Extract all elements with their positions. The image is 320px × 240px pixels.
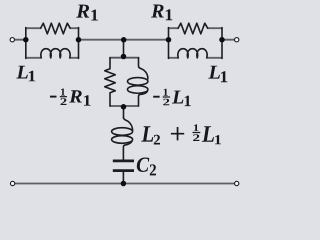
wire center drop top: [123, 40, 125, 58]
label R1 right: [151, 5, 172, 21]
label -1/2 L1: [153, 89, 191, 106]
capacitor C2 top plate: [113, 160, 134, 163]
junction dot middle block top: [121, 54, 127, 60]
inductor -1/2 L1 loop 2: [128, 86, 148, 94]
wire left block top leads: [26, 27, 79, 29]
inductor -1/2 L1 entry: [139, 58, 148, 79]
wire bottom rail: [15, 183, 235, 185]
inductor L2 loop 2: [112, 136, 133, 144]
label -1/2 R1: [50, 89, 91, 106]
label L1 right: [208, 66, 227, 83]
wire top rail left stub: [15, 39, 26, 41]
wire middle block top line: [110, 57, 139, 59]
wire left block bottom leads: [26, 57, 79, 59]
wire top rail center span: [79, 39, 169, 41]
resistor R1 right zigzag: [178, 23, 208, 34]
inductor L1 right arches: [178, 49, 207, 58]
wire center drop mid: [123, 106, 125, 118]
wire middle block bottom line: [110, 105, 138, 107]
junction dot right block right: [219, 37, 225, 43]
label R1 left: [76, 5, 98, 21]
inductor L2 entry: [123, 118, 132, 131]
node: bottom right terminal: [235, 181, 239, 185]
junction dot right block left: [166, 37, 172, 43]
capacitor C2 bottom plate: [113, 169, 134, 172]
inductor L2 exit: [123, 141, 132, 160]
wire right block top leads: [169, 27, 223, 29]
label L2 + 1/2 L1: [141, 124, 221, 144]
inductor -1/2 L1 loop 1: [128, 78, 148, 86]
resistor R1 left zigzag: [41, 23, 71, 34]
junction dot left block left: [23, 37, 29, 43]
resistor -1/2 R1: [105, 58, 116, 106]
inductor -1/2 L1 exit: [139, 91, 148, 106]
wire top rail right stub: [222, 39, 235, 41]
wire left block right vertical: [78, 28, 80, 59]
inductor L1 left arches: [41, 49, 70, 58]
junction dot left block right: [76, 37, 82, 43]
gray horizontal wires: [15, 28, 235, 183]
wire right block left vertical: [168, 28, 170, 59]
label C2: [137, 158, 156, 176]
wire cap to rail: [122, 172, 124, 184]
junction dot bottom rail: [121, 181, 127, 187]
inductor L2 loop 1: [112, 128, 133, 136]
node: left input terminal: [10, 38, 14, 42]
junction dot top center: [121, 37, 127, 43]
junction dot middle block bottom: [121, 104, 127, 110]
wire right block bottom leads: [169, 57, 223, 59]
node: bottom left terminal: [10, 181, 14, 185]
label L1 left: [16, 66, 35, 82]
wire right block right vertical: [221, 28, 223, 59]
node: right output terminal: [235, 38, 239, 42]
wire left block left vertical: [25, 28, 27, 59]
